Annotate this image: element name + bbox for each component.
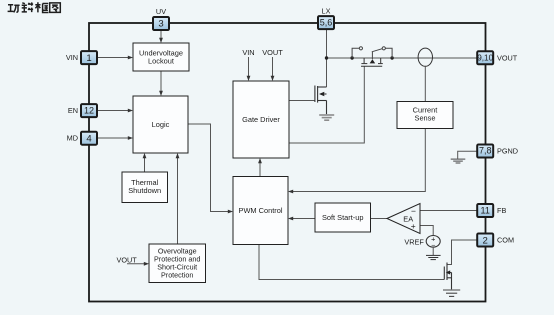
junction node right switch — [390, 56, 393, 59]
inductor/current probe ellipse — [418, 48, 432, 66]
pass FET Q2 (bulk-switched PMOS) — [361, 58, 383, 66]
svg-text:Soft Start-up: Soft Start-up — [322, 213, 364, 222]
NMOS Q1 (low-side) — [315, 86, 327, 115]
svg-text:12: 12 — [84, 105, 94, 115]
wire: PWM Control bottom to Q3 gate — [259, 245, 444, 280]
wire: Thermal Shutdown up to Logic with arrow — [143, 153, 147, 172]
svg-text:VOUT: VOUT — [497, 53, 518, 62]
wire: PWM Control up to Gate Driver with arrow — [258, 158, 262, 177]
wire: pin1 to UVLO with arrow — [98, 56, 133, 60]
switch contact right (circle + elbow) — [382, 47, 392, 58]
title 功能框图 (hand-drawn CJK strokes) — [8, 2, 61, 12]
switch contact left (elbow + circle) — [352, 47, 362, 58]
功 — [8, 5, 20, 13]
ground for Q1 — [319, 115, 334, 120]
block Soft Start-up — [315, 203, 371, 232]
pin 3 UV — [153, 7, 169, 30]
wire: Gate Driver to pass FET gate — [289, 66, 364, 143]
wire: Current Sense to PWM Control with arrow — [288, 129, 425, 194]
svg-text:Lockout: Lockout — [148, 57, 174, 66]
block Undervoltage Lockout — [133, 43, 189, 71]
pin 12 EN — [68, 104, 97, 117]
wire: pin12 to Logic with arrow — [98, 109, 133, 113]
svg-text:1: 1 — [86, 53, 91, 64]
ground at PGND — [451, 159, 466, 163]
pin 1 VIN — [66, 51, 97, 64]
svg-text:7,8: 7,8 — [479, 146, 492, 156]
svg-text:Gate Driver: Gate Driver — [242, 115, 280, 124]
wire: output rail LX to VOUT pin — [327, 57, 477, 59]
svg-text:9,10: 9,10 — [477, 54, 493, 63]
NMOS Q3 (COM switch) — [444, 263, 451, 290]
svg-text:Shutdown: Shutdown — [128, 186, 161, 195]
switch lever to bulk of pass FET — [372, 49, 383, 60]
svg-text:3: 3 — [158, 19, 163, 30]
wire: EA output to Soft Start-up — [371, 218, 388, 220]
wire: Gate Driver to NMOS Q1 gate — [289, 100, 315, 102]
block Overvoltage / Short-Circuit Protection — [149, 244, 206, 283]
框 — [35, 2, 48, 12]
svg-text:11: 11 — [481, 205, 490, 215]
能 — [22, 2, 33, 12]
pin 2 COM — [477, 234, 514, 247]
wire: COM pin to Q3 drain — [447, 240, 477, 265]
wire: Logic right to PWM Control with arrow — [188, 124, 233, 213]
wire: Soft Start-up to PWM Control with arrow — [288, 217, 315, 221]
图 — [50, 3, 61, 13]
ground under VREF — [426, 255, 441, 259]
svg-text:5,6: 5,6 — [320, 18, 333, 28]
svg-text:+: + — [411, 221, 416, 231]
block Current Sense — [397, 102, 453, 129]
svg-text:4: 4 — [86, 133, 92, 144]
wire: LX rail down to Q1 drain — [326, 30, 328, 88]
block Logic — [133, 96, 188, 153]
wire: FB pin to EA inverting input — [420, 210, 477, 212]
op-amp EA — [387, 204, 420, 234]
svg-text:2: 2 — [483, 235, 488, 246]
outer boundary box — [89, 23, 486, 302]
pin 11 FB — [477, 204, 506, 217]
svg-text:VOUT: VOUT — [262, 48, 283, 57]
pin 9,10 VOUT — [477, 51, 518, 64]
wire: EA non-inverting input to VREF — [420, 226, 433, 236]
svg-text:Sense: Sense — [415, 114, 436, 123]
svg-text:VREF: VREF — [404, 238, 424, 247]
svg-text:COM: COM — [497, 236, 514, 245]
wire: pin4 to Logic with arrow — [98, 136, 133, 140]
voltage source VREF — [426, 235, 440, 250]
ground for Q3 — [443, 290, 460, 296]
wire: UVLO down to Logic with arrow — [159, 71, 163, 96]
svg-text:Logic: Logic — [152, 120, 170, 129]
svg-text:VIN: VIN — [66, 53, 78, 62]
svg-text:UV: UV — [156, 7, 166, 16]
wire: VIN into Gate Driver with arrow — [247, 57, 251, 81]
wire: pin7,8 to ground — [458, 151, 477, 158]
block PWM Control — [233, 177, 288, 245]
block Gate Driver — [233, 81, 289, 158]
svg-text:PWM Control: PWM Control — [239, 206, 283, 215]
junction node left switch — [350, 56, 353, 59]
pin 4 MD — [67, 132, 97, 145]
svg-text:Protection: Protection — [161, 271, 193, 280]
wire: ellipse down to Current Sense — [424, 66, 426, 101]
svg-text:LX: LX — [322, 7, 331, 16]
svg-text:MD: MD — [67, 134, 78, 143]
pin 5,6 LX — [318, 7, 334, 30]
wire: VREF to ground — [432, 247, 434, 255]
svg-text:VIN: VIN — [242, 48, 254, 57]
svg-text:FB: FB — [497, 206, 506, 215]
wire: OVP up to Logic with arrow — [176, 153, 180, 244]
wire: VOUT into Gate Driver with arrow — [271, 57, 275, 81]
svg-text:EN: EN — [68, 106, 78, 115]
wire: pin3 down to UVLO with arrow — [159, 31, 163, 44]
pin 7,8 PGND — [477, 145, 518, 158]
svg-text:PGND: PGND — [497, 146, 518, 155]
block Thermal Shutdown — [122, 172, 168, 203]
wire: VOUT to OVP with arrow — [127, 262, 149, 266]
junction node on LX rail — [325, 56, 328, 59]
svg-text:VOUT: VOUT — [117, 256, 138, 265]
